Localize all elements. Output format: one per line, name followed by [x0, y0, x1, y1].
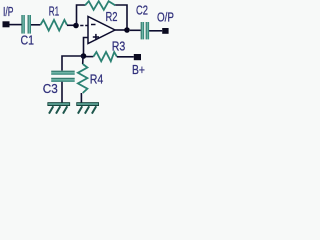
ground (under R4) [77, 103, 99, 114]
node C junction dot [124, 27, 130, 33]
svg-text:B+: B+ [132, 62, 145, 77]
wire R1 to node A [67, 24, 76, 26]
wire R3 to B+ [117, 56, 134, 58]
wire node C to C2 [130, 29, 141, 31]
op-amp U1 [88, 17, 115, 44]
svg-text:R4: R4 [90, 72, 104, 87]
resistor R3 [93, 52, 116, 61]
wire node A to op-amp inverting input (dashed) [80, 25, 88, 27]
wire input to C1 [10, 24, 22, 26]
node B junction dot [81, 53, 87, 59]
wire R4 to ground [80, 93, 82, 103]
terminal O/P [162, 28, 168, 34]
wire C1 to R1 [31, 24, 41, 26]
terminal I/P [3, 21, 10, 27]
resistor R1 [41, 20, 67, 31]
svg-text:R2: R2 [106, 9, 118, 24]
svg-text:C2: C2 [136, 3, 148, 18]
svg-text:C1: C1 [20, 33, 34, 48]
capacitor C1 [21, 15, 31, 34]
wire feedback right riser [115, 5, 127, 29]
svg-text:R3: R3 [112, 38, 126, 53]
wire non-inverting input [84, 38, 89, 57]
svg-text:I/P: I/P [3, 4, 14, 19]
ground (under C3) [48, 103, 70, 114]
wire feedback left riser [77, 5, 86, 26]
svg-text:C3: C3 [43, 81, 58, 96]
resistor R2 [85, 1, 115, 10]
wire node B to R3 [86, 56, 93, 58]
svg-text:R1: R1 [49, 3, 60, 18]
wire node B to C3 [62, 56, 84, 71]
wire op-amp output to node C [115, 29, 127, 31]
resistor R4 [78, 64, 88, 93]
terminal B+ [134, 54, 141, 60]
wire node B to R4 [82, 56, 84, 64]
node A junction dot [73, 23, 79, 29]
capacitor C3 [51, 71, 74, 82]
capacitor C2 [141, 22, 149, 39]
wire C3 to ground [61, 82, 63, 103]
wire C2 to O/P [149, 30, 162, 32]
svg-text:O/P: O/P [157, 9, 174, 24]
